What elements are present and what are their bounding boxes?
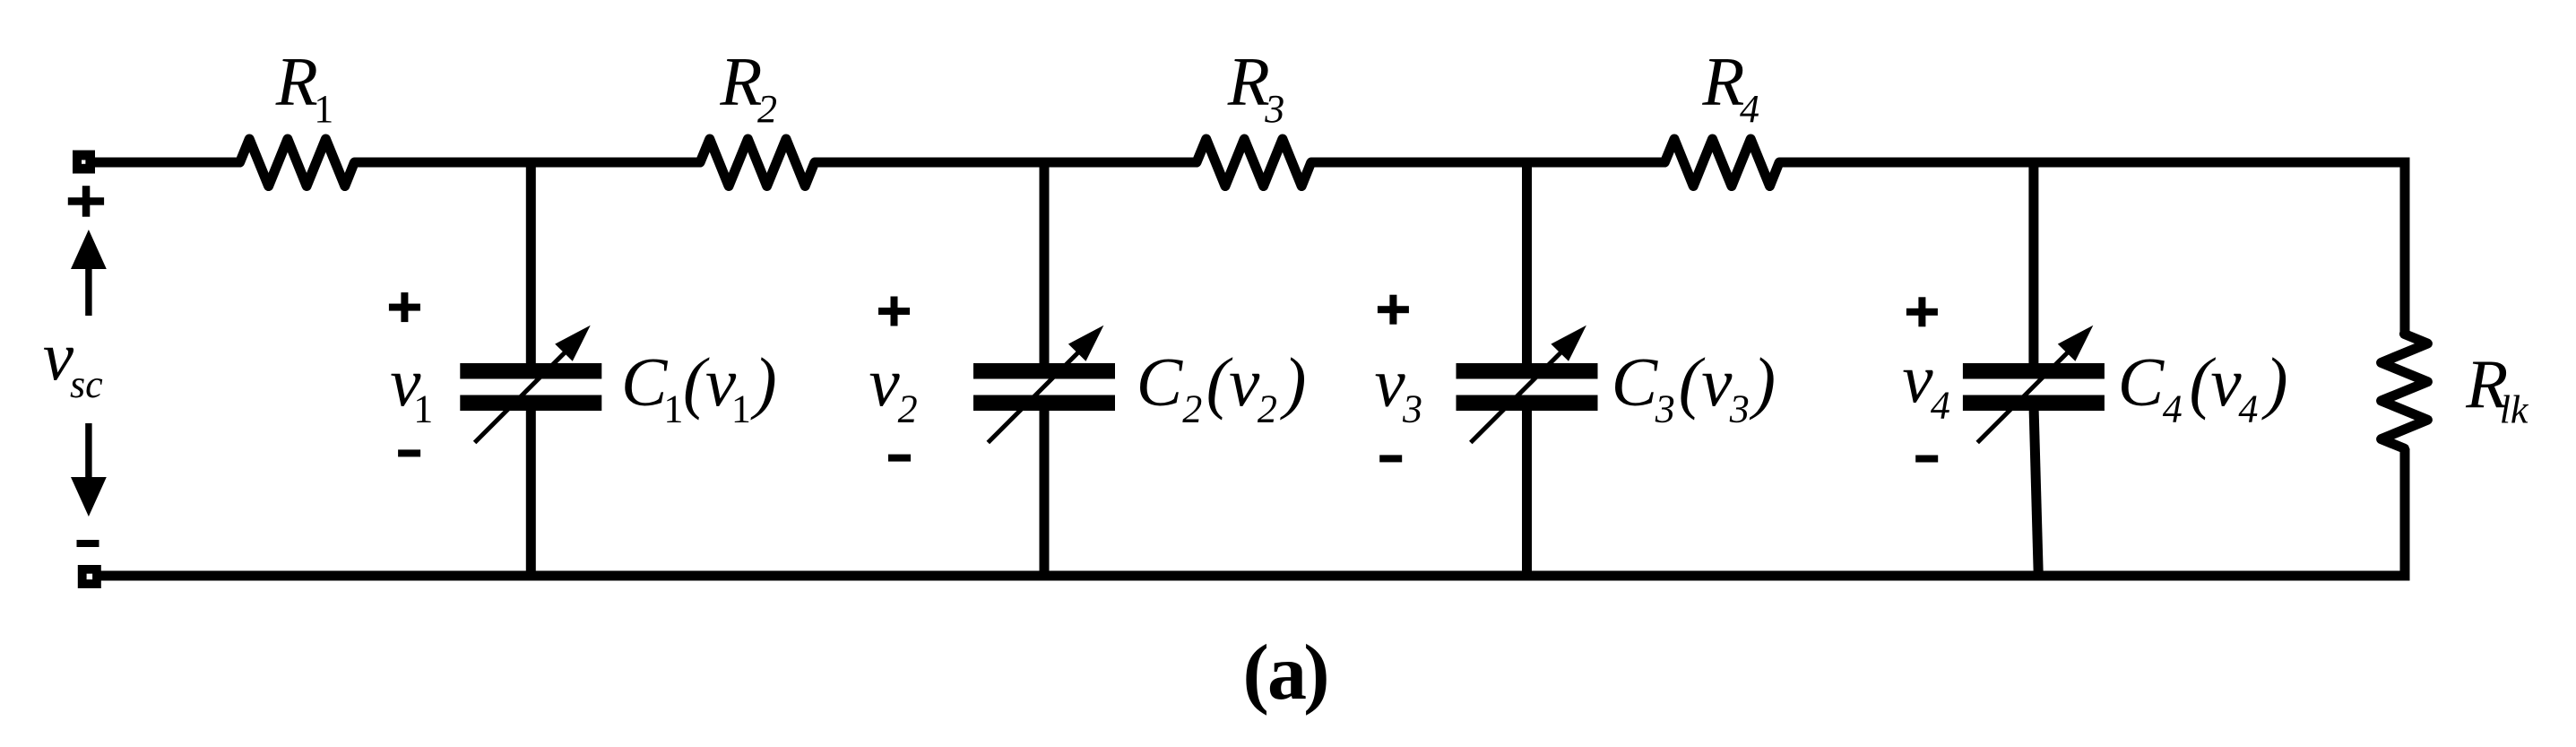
capacitor C3 top plate [1457, 363, 1598, 379]
svg-text:2: 2 [1182, 387, 1202, 430]
svg-text:): ) [2261, 343, 2288, 421]
svg-text:R: R [719, 43, 762, 120]
capacitor C4 top plate [1963, 363, 2105, 379]
wire: bottom branch wire of C4 [2034, 403, 2039, 580]
svg-text:v: v [869, 343, 901, 421]
capacitor C3 bottom plate [1457, 395, 1598, 412]
plus sign of v1 [389, 304, 420, 311]
svg-text:v: v [2210, 343, 2242, 421]
svg-text:v: v [1375, 344, 1406, 421]
capacitor C4 bottom plate [1963, 395, 2105, 412]
wire: top rail, R4 to top-right corner [1779, 158, 2409, 168]
wire: top rail, R2 to R3 [815, 158, 1197, 168]
minus sign of v4 [1915, 456, 1938, 463]
svg-text:3: 3 [1729, 387, 1750, 430]
svg-text:v: v [1701, 343, 1733, 421]
svg-text:lk: lk [2500, 388, 2529, 432]
plus sign of source vsc [68, 197, 104, 205]
wire: top branch wire of C2 [1040, 158, 1050, 371]
svg-text:4: 4 [1740, 87, 1759, 131]
terminal: bottom-left input terminal [78, 565, 101, 588]
arrow up of source vsc [85, 266, 91, 316]
svg-text:R: R [275, 43, 318, 120]
wire: right branch lower segment [2400, 448, 2410, 581]
plus sign of v2 [878, 308, 910, 315]
svg-text:R: R [1701, 43, 1744, 120]
resistor Rlk [2382, 334, 2428, 448]
wire: top rail, R1 to R2 [354, 158, 700, 168]
svg-text:): ) [1303, 630, 1329, 717]
wire: bottom branch wire of C1 [526, 403, 536, 580]
variable-capacitor arrow of C1 [475, 343, 575, 443]
capacitor C1 top plate [460, 363, 601, 379]
svg-text:2: 2 [898, 387, 918, 431]
svg-text:3: 3 [1402, 387, 1422, 431]
svg-text:C: C [1612, 343, 1659, 421]
wire: top rail, R3 to R4 [1311, 158, 1665, 168]
plus sign of v3 [1378, 306, 1409, 313]
capacitor C1 bottom plate [460, 395, 601, 412]
svg-text:v: v [1229, 343, 1260, 421]
capacitor C2 bottom plate [973, 395, 1115, 412]
svg-text:): ) [1749, 343, 1776, 421]
svg-text:4: 4 [1931, 384, 1950, 428]
wire: top rail, terminal to R1 [87, 158, 240, 168]
wire: bottom branch wire of C3 [1522, 403, 1532, 580]
svg-text:2: 2 [757, 87, 777, 131]
wire: top branch wire of C1 [526, 158, 536, 371]
resistor R2 [700, 139, 815, 187]
svg-text:4: 4 [2238, 387, 2258, 430]
wire: top branch wire of C4 [2028, 158, 2038, 371]
svg-text:1: 1 [413, 387, 433, 431]
svg-text:3: 3 [1264, 87, 1284, 131]
svg-text:(: ( [1243, 630, 1269, 717]
svg-text:a: a [1267, 630, 1307, 717]
minus sign of v2 [888, 455, 911, 462]
wire: top branch wire of C3 [1522, 158, 1532, 371]
minus sign of source vsc [77, 540, 99, 547]
arrow down of source vsc [85, 423, 91, 478]
svg-text:2: 2 [1258, 387, 1277, 430]
svg-text:3: 3 [1655, 387, 1675, 430]
svg-text:1: 1 [314, 87, 333, 131]
variable-capacitor arrow of C3 [1471, 343, 1570, 443]
terminal: top-left input terminal [73, 151, 95, 174]
svg-text:C: C [2118, 343, 2165, 421]
resistor R1 [240, 139, 355, 187]
svg-text:C: C [1137, 343, 1184, 421]
minus sign of v1 [398, 449, 420, 456]
svg-text:sc: sc [70, 362, 103, 406]
wire: bottom branch wire of C2 [1040, 403, 1050, 580]
wire: right branch upper segment [2400, 158, 2410, 335]
variable-capacitor arrow of C2 [988, 343, 1087, 443]
svg-text:1: 1 [731, 387, 751, 430]
svg-text:v: v [1902, 340, 1933, 417]
resistor R3 [1197, 139, 1311, 187]
svg-text:): ) [750, 343, 777, 421]
svg-text:): ) [1280, 343, 1307, 421]
capacitor C2 top plate [973, 363, 1115, 379]
plus sign of v4 [1906, 308, 1938, 316]
resistor R4 [1664, 139, 1779, 187]
svg-text:C: C [621, 343, 669, 421]
wire: bottom rail [87, 571, 2410, 581]
variable-capacitor arrow of C4 [1977, 343, 2077, 443]
svg-text:4: 4 [2163, 387, 2183, 430]
svg-text:R: R [1227, 43, 1270, 120]
svg-text:1: 1 [663, 387, 683, 430]
minus sign of v3 [1379, 455, 1402, 462]
